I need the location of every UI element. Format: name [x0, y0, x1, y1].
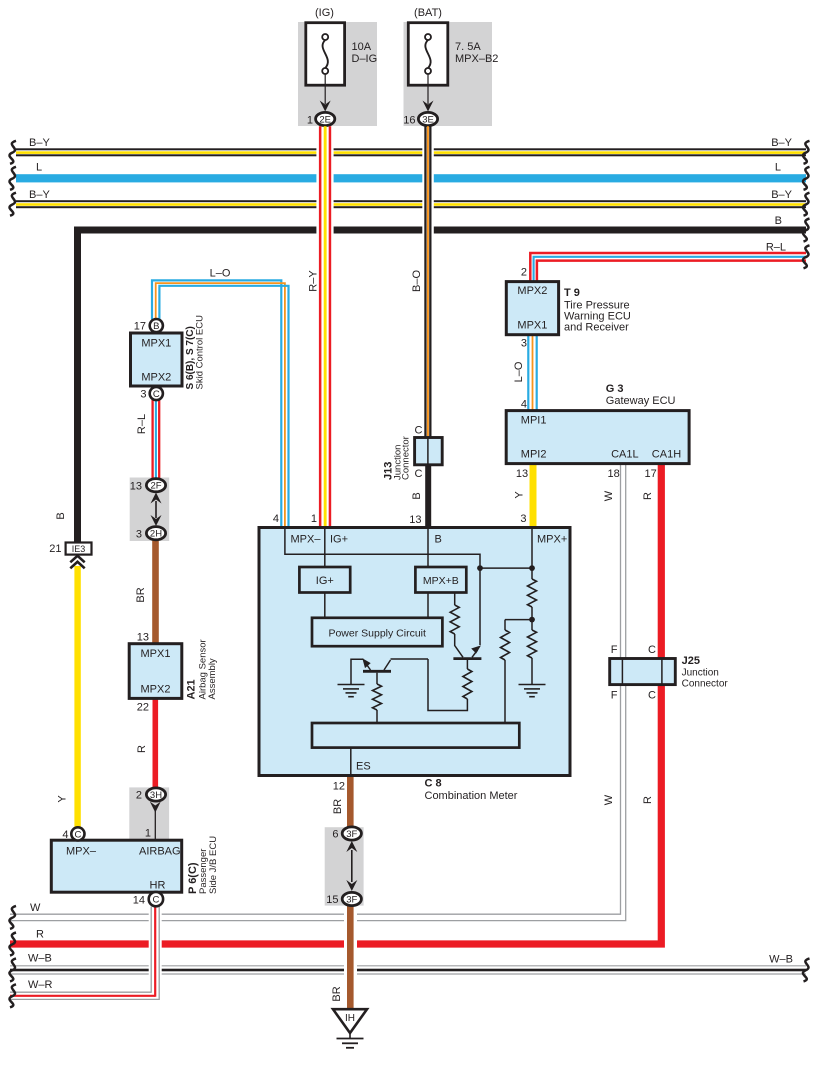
- wire L-O T9 pin 3 to gateway MPI1 pin 4: [527, 335, 529, 411]
- transistor Q1 base bar: [363, 670, 391, 673]
- wire BR meter ES pin 12 to 3F: [347, 776, 354, 828]
- bus wire L: [16, 174, 806, 182]
- svg-text:Combination Meter: Combination Meter: [425, 790, 518, 802]
- resistor R5 (below Q2): [463, 669, 472, 699]
- svg-text:R–L: R–L: [766, 242, 786, 254]
- svg-text:13: 13: [130, 481, 142, 493]
- pin circle C P6 pin 14: [149, 892, 163, 906]
- svg-text:C 8: C 8: [425, 778, 442, 790]
- resistor R2 (MPX+ upper): [528, 579, 537, 607]
- svg-text:Assembly: Assembly: [207, 658, 218, 699]
- power supply circuit box: [312, 618, 442, 646]
- svg-text:2F: 2F: [150, 481, 161, 492]
- svg-text:D–IG: D–IG: [352, 53, 378, 65]
- svg-text:MPX2: MPX2: [141, 372, 171, 384]
- svg-text:MPI2: MPI2: [521, 449, 547, 461]
- tire pressure warning ECU T9 box: [506, 282, 558, 335]
- svg-text:MPX1: MPX1: [141, 648, 171, 660]
- svg-text:C: C: [74, 829, 81, 840]
- svg-text:C: C: [152, 895, 159, 906]
- svg-text:17: 17: [645, 468, 657, 480]
- svg-text:(IG): (IG): [315, 7, 334, 19]
- svg-text:Power Supply Circuit: Power Supply Circuit: [328, 628, 426, 640]
- svg-text:14: 14: [133, 895, 145, 907]
- svg-text:12: 12: [333, 781, 345, 793]
- svg-text:Y: Y: [57, 795, 69, 803]
- svg-text:2E: 2E: [319, 114, 331, 125]
- double arrow between 2F and 2H: [151, 493, 162, 504]
- svg-text:B–Y: B–Y: [29, 137, 50, 149]
- svg-text:Gateway ECU: Gateway ECU: [606, 395, 676, 407]
- svg-text:MPX+: MPX+: [537, 534, 567, 546]
- svg-text:R: R: [36, 929, 44, 941]
- svg-text:B–Y: B–Y: [771, 189, 792, 201]
- wire W-R vertical P6 pin 14 to W-R bus: [149, 906, 162, 990]
- wire IG+ box to power supply: [324, 593, 326, 618]
- bus wire B with corner down to IE3: [78, 230, 807, 543]
- connector 2F pin 13: [146, 479, 165, 492]
- svg-text:T 9: T 9: [564, 287, 580, 299]
- svg-text:Connector: Connector: [682, 679, 729, 690]
- svg-text:B–Y: B–Y: [29, 189, 50, 201]
- bus wire W-B bottom: [10, 965, 806, 967]
- svg-text:IG+: IG+: [316, 575, 334, 587]
- svg-text:and Receiver: and Receiver: [564, 322, 629, 334]
- wire MPX+B right pin down: [454, 593, 456, 606]
- svg-text:BR: BR: [332, 799, 344, 814]
- svg-text:L–O: L–O: [513, 361, 525, 382]
- svg-text:CA1H: CA1H: [652, 449, 681, 461]
- wire Q2 base down: [466, 660, 468, 669]
- wire IG+ pin to IG+ box: [324, 528, 326, 568]
- svg-text:3H: 3H: [150, 790, 162, 801]
- connector 3F pin 15: [342, 892, 361, 905]
- bus wire W bottom with corner up to CA1L: [10, 685, 621, 915]
- svg-text:MPI1: MPI1: [521, 415, 547, 427]
- svg-text:F: F: [611, 644, 618, 656]
- svg-text:R: R: [642, 492, 654, 500]
- svg-text:3: 3: [136, 529, 142, 541]
- svg-text:MPX2: MPX2: [141, 684, 171, 696]
- wire R A21 MPX2 pin 22 to 3H: [153, 698, 159, 788]
- svg-text:C: C: [153, 389, 160, 400]
- pin circle C skid ECU pin 3: [150, 387, 163, 400]
- bus wire R bottom with corner up to CA1H: [10, 685, 661, 944]
- wire 3H to P6 AIRBAG pin 1: [154, 811, 156, 840]
- svg-text:C: C: [648, 644, 656, 656]
- wire R5 to Q1 collector path: [428, 659, 467, 711]
- svg-text:BR: BR: [331, 986, 343, 1001]
- svg-text:3F: 3F: [346, 894, 357, 905]
- svg-text:MPX+B: MPX+B: [423, 575, 459, 587]
- node dot MPX+ mid: [529, 617, 535, 623]
- connector 3E pin 16: [418, 112, 437, 125]
- junction connector J13 box: [415, 438, 443, 465]
- connector IE3 pin 21: [66, 543, 92, 555]
- svg-text:C: C: [648, 690, 656, 702]
- wire B J13 to meter pin 13: [425, 465, 431, 528]
- svg-text:13: 13: [516, 468, 528, 480]
- pin circle C P6 pin 4: [71, 827, 84, 840]
- svg-text:15: 15: [326, 894, 338, 906]
- ground IH triangle: [333, 1009, 367, 1033]
- svg-text:IH: IH: [345, 1013, 355, 1024]
- wire BR 2H to A21 MPX1 pin 13: [152, 540, 159, 644]
- wire MPX+ pin down: [531, 528, 533, 580]
- svg-text:R–Y: R–Y: [308, 270, 320, 292]
- wire fuse F1 to connector 2E: [324, 74, 326, 104]
- shield chevron symbol: [70, 556, 84, 563]
- ground symbol left (meter): [338, 684, 365, 686]
- svg-text:MPX1: MPX1: [141, 338, 171, 350]
- fuse holder background (BAT): [404, 22, 493, 126]
- svg-text:4: 4: [521, 399, 527, 411]
- wire fuse F2 to connector 3E: [427, 74, 429, 104]
- arrow below 3H: [150, 802, 161, 813]
- wire R2 to dot: [531, 607, 533, 620]
- svg-text:ES: ES: [356, 761, 371, 773]
- resistor R6 (below Q1): [373, 684, 382, 710]
- svg-text:Connector: Connector: [401, 436, 412, 480]
- svg-text:BR: BR: [135, 587, 147, 602]
- bus wire R-L with corner down to T9 pin 2: [530, 253, 806, 282]
- svg-text:B–Y: B–Y: [771, 137, 792, 149]
- op MPX+B box: [415, 567, 466, 593]
- svg-text:10A: 10A: [352, 41, 372, 53]
- svg-text:2: 2: [521, 267, 527, 279]
- svg-text:W–B: W–B: [28, 953, 52, 965]
- ES box (bottom rectangle): [312, 723, 519, 748]
- gateway ECU G3 box: [506, 411, 689, 464]
- wire R CA1H upper segment: [658, 464, 665, 659]
- svg-text:13: 13: [409, 514, 421, 526]
- svg-text:G 3: G 3: [606, 383, 624, 395]
- wire BR 3F to ground IH: [344, 906, 357, 1009]
- svg-text:W: W: [30, 902, 41, 914]
- svg-text:21: 21: [49, 543, 61, 555]
- svg-text:R: R: [136, 745, 148, 753]
- wire W CA1L upper segment: [620, 464, 622, 659]
- transistor Q2 emitter with arrow: [472, 650, 478, 657]
- svg-text:7. 5A: 7. 5A: [455, 41, 481, 53]
- wire Y chevron to P6 MPX- pin 4: [74, 566, 80, 828]
- svg-text:2: 2: [136, 790, 142, 802]
- svg-text:B: B: [153, 321, 159, 332]
- svg-text:Junction: Junction: [682, 668, 719, 679]
- svg-text:B: B: [435, 534, 442, 546]
- svg-text:MPX1: MPX1: [517, 320, 547, 332]
- svg-text:W–R: W–R: [28, 979, 53, 991]
- svg-text:L–O: L–O: [210, 268, 231, 280]
- svg-text:17: 17: [134, 321, 146, 333]
- svg-text:16: 16: [403, 115, 415, 127]
- transistor Q1 collector: [384, 659, 428, 670]
- transistor Q2 base bar: [453, 657, 481, 660]
- svg-text:B: B: [775, 215, 782, 227]
- svg-text:IG+: IG+: [330, 534, 348, 546]
- svg-text:R–L: R–L: [136, 414, 148, 434]
- connector block 3F background: [325, 827, 364, 905]
- skid control ECU box S6(B) S7(C): [131, 333, 183, 386]
- svg-text:3E: 3E: [422, 114, 434, 125]
- svg-text:6: 6: [332, 829, 338, 841]
- passenger side J/B ECU P6 box: [51, 840, 181, 892]
- connector 2E pin 1: [316, 112, 335, 125]
- svg-text:B: B: [55, 512, 67, 519]
- svg-text:3F: 3F: [346, 829, 357, 840]
- svg-text:C: C: [415, 425, 423, 437]
- svg-text:F: F: [611, 690, 618, 702]
- svg-text:1: 1: [145, 828, 151, 840]
- wire R6 to ES box: [376, 710, 378, 723]
- svg-text:AIRBAG: AIRBAG: [139, 846, 181, 858]
- op IG+ box: [299, 567, 350, 593]
- svg-text:B–O: B–O: [411, 270, 423, 292]
- junction connector J25 box: [610, 659, 676, 685]
- svg-text:4: 4: [273, 513, 279, 525]
- wire junction horizontal (568): [480, 567, 532, 569]
- svg-text:MPX–: MPX–: [66, 846, 97, 858]
- svg-text:C: C: [415, 468, 423, 480]
- svg-text:1: 1: [307, 115, 313, 127]
- combination meter C8 box: [259, 528, 570, 776]
- ground IH symbol: [349, 1033, 351, 1039]
- svg-text:2H: 2H: [150, 529, 162, 540]
- svg-text:13: 13: [137, 632, 149, 644]
- svg-text:Side J/B ECU: Side J/B ECU: [208, 836, 219, 894]
- node dot MPX- line: [477, 565, 483, 571]
- svg-text:22: 22: [137, 702, 149, 714]
- svg-text:MPX–: MPX–: [291, 534, 322, 546]
- resistor R4 (x505): [504, 620, 506, 630]
- svg-text:MPX–B2: MPX–B2: [455, 53, 498, 65]
- fuse holder background (IG): [298, 22, 377, 126]
- transistor Q1 emitter with arrow: [366, 663, 371, 670]
- svg-text:3: 3: [520, 513, 526, 525]
- wire MPX+B to power supply: [427, 593, 429, 618]
- wire L-O skid ECU pin B to meter MPX- pin 4: [152, 280, 281, 527]
- wire B pin to MPX+B box: [427, 528, 429, 568]
- svg-text:B: B: [411, 492, 423, 499]
- wire R4 to ES box: [504, 660, 506, 723]
- wire R3 to ground: [531, 658, 533, 685]
- svg-text:HR: HR: [150, 880, 166, 892]
- svg-text:W: W: [603, 794, 615, 805]
- connector 3F pin 6: [342, 827, 361, 840]
- fuse F1 10A D-IG: [306, 23, 345, 85]
- wire B-O vertical 3E to J13: [422, 127, 434, 438]
- svg-text:4: 4: [62, 829, 68, 841]
- svg-text:3: 3: [521, 338, 527, 350]
- wire ES box to pin 12: [350, 748, 352, 776]
- bus wire B-Y upper: [16, 148, 806, 150]
- connector block 2F/2H background: [130, 478, 170, 542]
- svg-text:CA1L: CA1L: [611, 449, 639, 461]
- bus wire B-Y lower: [16, 200, 806, 202]
- wire R1 to Q2 collector: [455, 634, 463, 657]
- wire Q1 base down: [376, 673, 378, 684]
- svg-text:(BAT): (BAT): [414, 7, 442, 19]
- svg-text:L: L: [775, 162, 781, 174]
- wire Y gateway MPI2 to meter MPX+ pin 3: [530, 464, 537, 528]
- resistor R3 (MPX+ lower): [528, 630, 537, 658]
- svg-text:W: W: [603, 490, 615, 501]
- airbag sensor assembly A21 box: [129, 644, 182, 699]
- svg-text:IE3: IE3: [72, 544, 86, 554]
- wire dot to R4 horizontal: [505, 619, 532, 621]
- svg-text:3: 3: [140, 389, 146, 401]
- wire MPX- internal with junction: [285, 528, 480, 646]
- fuse F2 7.5A MPX-B2: [408, 23, 448, 85]
- connector 3H pin 2: [146, 788, 165, 801]
- bus wire W-R bottom horizontal segment: [10, 991, 151, 993]
- double arrow between 3F ovals: [346, 841, 357, 852]
- connector 2H pin 3: [146, 527, 165, 540]
- svg-text:18: 18: [608, 468, 620, 480]
- svg-text:A21: A21: [186, 679, 198, 699]
- node dot MPX+ upper: [529, 565, 535, 571]
- svg-text:MPX2: MPX2: [517, 285, 547, 297]
- svg-text:Skid Control ECU: Skid Control ECU: [195, 315, 206, 390]
- ground symbol right (meter): [519, 684, 546, 686]
- svg-text:Y: Y: [514, 491, 526, 499]
- svg-text:W–B: W–B: [769, 954, 793, 966]
- wire R-L skid ECU pin C to 2F: [151, 399, 153, 479]
- svg-text:R: R: [642, 796, 654, 804]
- resistor R1 (below MPX+B): [450, 605, 459, 634]
- connector block 3H background: [129, 787, 169, 840]
- svg-text:J25: J25: [682, 655, 700, 667]
- svg-text:1: 1: [311, 513, 317, 525]
- svg-text:L: L: [36, 162, 42, 174]
- wire R-Y vertical 2E to meter IG+ pin 1: [316, 127, 333, 528]
- pin circle B skid ECU pin 17: [150, 319, 163, 332]
